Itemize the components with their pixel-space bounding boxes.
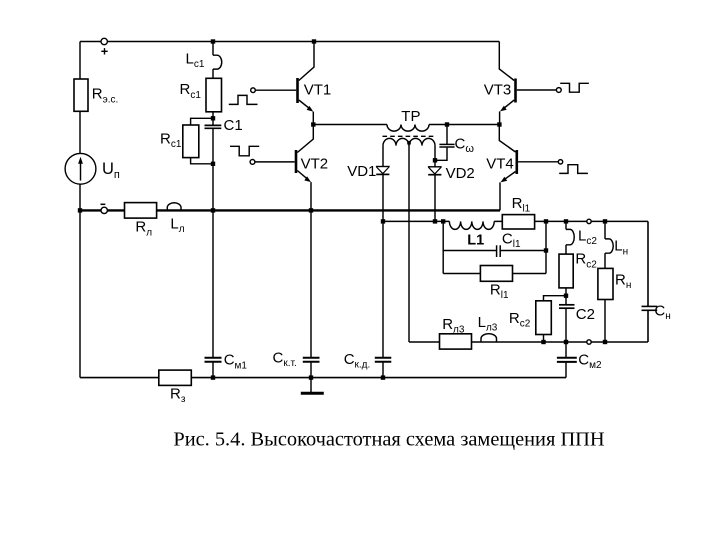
wire Rn down [604,300,606,343]
wire Ckt to bottom rail [310,362,312,377]
wire TP primary to VT3-VT4 junction [429,124,499,126]
svg-text:C1: C1 [224,117,243,134]
node VD1 bottom [381,219,385,223]
wire main mid rail [80,209,500,211]
wire Cn column bottom [647,311,649,342]
transformer core [383,135,435,137]
resistor Rc2 [559,254,573,288]
node Rc2-2 branch [564,294,568,298]
resistor Rn (R н) [598,268,613,299]
wire Ln to Rn [604,253,606,268]
wire left vertical bottom [79,210,81,377]
wire Cm2 top [565,342,567,357]
inductor Ll [167,203,181,211]
node Rc2-2 bottom [541,340,545,344]
capacitor Cl1 [497,245,501,257]
diode VD1 [376,167,390,175]
wire load bus y221 left [383,220,449,222]
svg-text:Lл: Lл [170,215,184,235]
wire VD2 top [434,160,436,167]
wire Ckt column [310,210,312,357]
wire secondary right lead [434,146,436,161]
wire Rc1 to node [212,112,214,119]
transformer TP primary [387,125,429,132]
node VD2 bottom [433,219,437,223]
node C1 top [211,116,215,120]
wire bottom bus y342 [409,341,648,343]
node mid column rail [211,208,215,212]
resistor Rc1-2 [183,125,199,158]
wire load bus y221 right [494,220,648,222]
inductor L1 [449,221,494,229]
wire Cm1 to bottom rail [212,362,214,377]
node Cl1 right [544,248,548,252]
wire C1 down [212,129,214,164]
svg-text:Cω: Cω [455,135,475,155]
capacitor C-omega [439,144,454,147]
capacitor Ckd [375,358,392,362]
wire VD2 down [434,175,436,222]
svg-text:Rс2: Rс2 [575,251,597,271]
inductor Lc2 [566,229,574,244]
svg-text:ТР: ТР [401,108,420,125]
wire secondary left lead [382,146,384,167]
node VT3-VT4 junction [497,122,501,126]
svg-text:Rз: Rз [170,385,186,405]
svg-text:L1: L1 [467,233,484,249]
wire node to C1 [212,118,214,125]
terminal bus y221 [587,219,591,223]
wire middle column top [212,42,214,56]
wire Lc1 to Rc1 [212,69,214,78]
wire VD1 node to Ckd [382,221,384,357]
svg-text:VT3: VT3 [484,82,512,99]
node Rn column bottom [603,340,607,344]
svg-text:Rл: Rл [135,219,152,239]
wire center tap vertical [408,143,410,342]
node Cm1 bottom rail [211,375,215,379]
node Rn column top [603,219,607,223]
wire L1 block right vertical [545,221,547,273]
capacitor C2 [559,305,575,308]
minus sign [101,203,106,205]
capacitor Cm2 [557,358,577,362]
node C1 bottom [211,162,215,166]
capacitor Cn [642,306,658,310]
svg-text:Lн: Lн [614,238,628,258]
wire Cl1 row right [500,250,546,252]
wire Rc2-2 branch [544,296,567,301]
diode VD2 [428,167,442,175]
svg-text:Rс2: Rс2 [509,310,531,330]
svg-text:Lс2: Lс2 [578,227,597,247]
wire Ln top [604,221,606,239]
terminal plus node [101,38,107,44]
svg-text:Rс1: Rс1 [180,81,202,101]
wire L1 block left vertical [442,221,444,273]
resistor Res (R э.с.) [74,79,88,111]
transistor VT1 [255,42,314,125]
node C-omega VD2 junction [433,158,437,162]
wire Lc2 to Rc2 [565,245,567,254]
svg-text:Rн: Rн [615,271,631,291]
wire Cn column top [647,221,649,306]
svg-text:VT2: VT2 [301,156,329,173]
wire left vertical mid [79,111,81,153]
wire top rail [80,41,499,43]
terminal VT4 base [558,160,562,164]
svg-text:Lл3: Lл3 [478,314,498,334]
wire C-omega lower elbow [435,148,447,161]
plus sign [101,48,107,54]
resistor Rz (R з) [159,370,192,385]
node Rl1 right [544,219,548,223]
svg-text:VT1: VT1 [304,82,332,99]
node TP center tap [407,141,411,145]
wire Rc2 to C2 [565,288,567,305]
node VT1-VT2 junction [311,122,315,126]
terminal minus node [101,207,107,213]
inductor Ln [605,239,613,253]
node Lc2 column top [564,219,568,223]
wire Ckd to bottom rail [382,362,384,377]
ground [301,378,324,394]
wire bottom rail [80,377,566,379]
svg-text:См2: См2 [578,352,602,372]
svg-text:Uп: Uп [102,160,120,181]
svg-text:Rl1: Rl1 [490,281,509,301]
wire Rc1-2 branch top [191,118,213,125]
wire Cm2 to bottom rail [565,363,567,378]
node Ckt bottom rail [309,375,313,379]
svg-text:Рис. 5.4. Высокочастотная схем: Рис. 5.4. Высокочастотная схема замещени… [173,429,605,451]
wire C-omega upper [446,125,448,145]
svg-text:VD2: VD2 [446,165,475,182]
transistor VT3 [499,42,556,125]
source Up circle [65,153,96,184]
svg-text:VD1: VD1 [347,163,376,180]
node left rail junction [78,208,82,212]
node VT2 emitter rail [309,208,313,212]
transistor VT4 [499,125,558,211]
wire RL1 row [443,273,546,275]
node L1 block left [441,219,445,223]
svg-text:VT4: VT4 [486,155,514,172]
capacitor Ckt [303,358,320,362]
resistor Rl (R л) [125,203,157,219]
waveform VT1 [229,95,258,104]
terminal VT2 base [250,160,255,165]
waveform VT3 [560,83,589,92]
resistor Rc2-2 [536,301,552,335]
wire Rc1-2 branch bottom [191,158,213,164]
resistor RL1 bottom [480,266,512,282]
terminal VT3 base [556,88,561,93]
inductor Ll3 [481,334,497,342]
source Up arrow [78,157,83,181]
wire left vertical lower [79,184,81,210]
node Ckd bottom rail [381,375,385,379]
svg-text:Lс1: Lс1 [186,50,205,70]
resistor Rc1 [206,78,222,112]
svg-text:Rс1: Rс1 [160,130,182,150]
svg-text:Rл3: Rл3 [442,316,465,336]
transformer TP secondary [383,138,435,145]
transistor VT2 [255,125,313,211]
wire Cm1 column [212,210,214,357]
svg-text:Cl1: Cl1 [502,231,521,251]
svg-text:Cн: Cн [654,303,670,323]
wire Cl1 row left [443,250,496,252]
node middle column top [211,39,215,43]
capacitor C1 [205,125,222,128]
waveform VT2 [230,146,259,156]
wire left vertical upper [79,42,81,80]
svg-text:См1: См1 [224,352,248,372]
svg-text:Ск.д.: Ск.д. [344,351,371,371]
wire C2 down [565,309,567,342]
wire Rc2-2 down [543,335,545,343]
svg-text:Ск.т.: Ск.т. [273,350,297,370]
waveform VT4 [559,165,588,174]
capacitor Cm1 [205,358,222,362]
terminal VT1 base [251,88,256,93]
wire VT junction to TP primary [313,124,387,126]
resistor Rl1 top [502,215,534,229]
wire Lc2 top [565,221,567,229]
terminal bus y342 [587,340,591,344]
resistor Rl3 (R л3) [440,334,472,349]
node C-omega top [445,122,449,126]
svg-text:Rl1: Rl1 [512,195,531,215]
node VT1 collector [312,39,316,43]
svg-text:Rэ.с.: Rэ.с. [92,86,119,106]
inductor Lc1 [213,55,222,69]
wire VD1 down [382,174,384,221]
node C2 column bottom [564,340,568,344]
svg-text:C2: C2 [576,306,595,323]
wire node to mid rail [212,164,214,211]
